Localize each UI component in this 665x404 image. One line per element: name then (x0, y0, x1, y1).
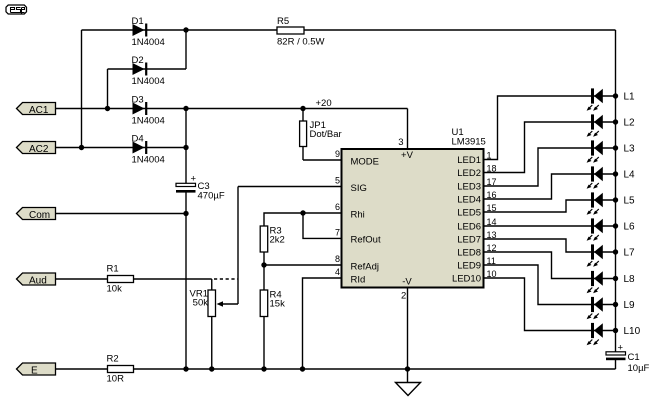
U1 pin 14 LED6 (457, 217, 496, 233)
svg-text:C1: C1 (628, 352, 640, 363)
wire: AC2 / D4 line (56, 147, 187, 149)
node junction at 615.5,330.5 (613, 328, 618, 333)
svg-text:10µF: 10µF (628, 363, 650, 374)
wire: right +V rail (615, 30, 617, 352)
node junction at 303,213 (300, 210, 305, 215)
svg-text:LED3: LED3 (457, 182, 481, 193)
wire: VR1 top lead (211, 279, 213, 290)
wire: AC1 riser to D2 (107, 69, 109, 109)
svg-text:AC1: AC1 (29, 105, 49, 116)
U1 pin 15 LED5 (457, 203, 496, 219)
ESP logo (6, 5, 27, 14)
svg-text:LED7: LED7 (457, 235, 481, 246)
wire: RefOut pin 7 branch (303, 213, 342, 238)
LED L7 (587, 244, 635, 266)
node junction at 615.5,174 (613, 171, 618, 176)
resistor R3 2k2 (260, 226, 285, 253)
svg-text:L9: L9 (624, 300, 636, 311)
potentiometer VR1 50k (190, 289, 223, 317)
wire: L2 anode to rail (594, 121, 616, 123)
U1 pin 17 LED3 (457, 177, 496, 193)
capacitor C3 470uF (176, 174, 225, 202)
wire: +V drop to IC pin 3 (407, 109, 409, 150)
wire: JP1 vertical (302, 109, 304, 161)
wire: wiper line (221, 303, 238, 305)
U1 pin 1 LED1 (457, 150, 491, 166)
LED L2 (587, 114, 635, 136)
node junction at 211.75,369 (209, 366, 214, 371)
svg-text:10R: 10R (107, 374, 125, 385)
svg-text:11: 11 (487, 256, 496, 266)
wire: AC2 riser to D1 (81, 30, 83, 148)
node junction at 186,108.5 (183, 106, 188, 111)
U1 pin 10 LED10 (452, 269, 497, 285)
svg-text:12: 12 (487, 243, 497, 253)
svg-text:10: 10 (487, 269, 497, 279)
svg-text:2: 2 (401, 291, 406, 302)
diode D2 1N4004 (132, 55, 165, 87)
node junction at 407.5,369 (405, 366, 410, 371)
U1 pin 7 RefOut (335, 228, 381, 246)
wire: D2 output riser (185, 30, 187, 69)
wire: pin 17 to L3 (484, 148, 592, 186)
node junction at 615.5,200 (613, 197, 618, 202)
wire: L7 anode to rail (594, 251, 616, 253)
U1 pin 9 MODE (335, 149, 379, 167)
wire: L10 anode to rail (594, 330, 616, 332)
wire: pin 18 to L2 (484, 122, 592, 173)
svg-text:+V: +V (401, 150, 414, 161)
LED L10 (587, 323, 641, 345)
svg-text:RefAdj: RefAdj (351, 261, 380, 272)
svg-text:9: 9 (335, 149, 340, 159)
svg-text:RefOut: RefOut (351, 235, 381, 246)
diode D4 1N4004 (132, 133, 165, 165)
jumper JP1 Dot/Bar (300, 120, 342, 147)
connector AC1 (17, 103, 56, 116)
wire: MODE pin 9 line (303, 159, 342, 161)
node junction at 81.5,147.5 (79, 145, 84, 150)
LED L4 (587, 166, 635, 188)
node junction at 107.5,108.5 (105, 106, 110, 111)
wire: RefAdj pin 8 line (264, 264, 342, 266)
node junction at 303,108.5 (300, 106, 305, 111)
wire: L3 anode to rail (594, 147, 616, 149)
U1 pin 18 LED2 (457, 163, 496, 179)
U1 pin 8 RefAdj (335, 254, 379, 272)
wire: D2 line (108, 68, 187, 70)
svg-text:L1: L1 (624, 92, 636, 103)
svg-text:LED1: LED1 (457, 155, 481, 166)
U1 +V pin 3 label (398, 137, 413, 161)
wire: L6 anode to rail (594, 225, 616, 227)
svg-text:L3: L3 (624, 144, 636, 155)
svg-text:4: 4 (335, 267, 340, 277)
wire: pin 11 to L9 (484, 265, 592, 305)
U1 pin 4 RId (335, 267, 365, 285)
svg-text:LED10: LED10 (452, 274, 481, 285)
svg-text:13: 13 (487, 230, 497, 240)
wire: pin 13 to L7 (484, 239, 592, 252)
wire: SIG vertical to wiper (237, 187, 239, 305)
svg-text:15k: 15k (270, 299, 286, 310)
wire: L8 anode to rail (594, 278, 616, 280)
svg-text:R5: R5 (277, 16, 289, 27)
resistor R2 10R (107, 354, 134, 385)
node junction at 186,147.5 (183, 145, 188, 150)
svg-text:D4: D4 (132, 133, 144, 144)
wire: Aud / R1 line (56, 278, 212, 280)
resistor R1 10k (107, 264, 134, 295)
svg-text:E: E (31, 365, 38, 376)
svg-text:L8: L8 (624, 274, 636, 285)
connector Aud (17, 273, 56, 286)
wire: E / ground rail (56, 368, 616, 370)
wire: Com line (56, 213, 187, 215)
U1 pin 16 LED4 (457, 190, 496, 206)
node junction at 186,369 (183, 366, 188, 371)
LED L6 (587, 218, 635, 240)
svg-text:L6: L6 (624, 222, 636, 233)
svg-text:10k: 10k (107, 284, 123, 295)
node junction at 615.5,122 (613, 119, 618, 124)
LED L5 (587, 192, 635, 214)
svg-text:1: 1 (487, 150, 492, 160)
diode D1 1N4004 (132, 16, 165, 48)
LED L9 (587, 297, 635, 319)
wire: SIG pin 5 line (238, 186, 342, 188)
svg-text:1N4004: 1N4004 (132, 37, 165, 48)
svg-text:R1: R1 (107, 264, 119, 275)
wire: C1 bottom lead (615, 360, 617, 369)
svg-text:+: + (618, 343, 624, 354)
node junction at 615.5,96 (613, 93, 618, 98)
wire: R4 bottom lead (263, 317, 265, 370)
resistor R4 15k (260, 290, 285, 317)
svg-text:Dot/Bar: Dot/Bar (310, 129, 342, 140)
wire: AC1 / D3 / +20 line (56, 108, 408, 110)
svg-text:5: 5 (335, 176, 340, 186)
svg-text:LED2: LED2 (457, 168, 481, 179)
svg-text:3: 3 (398, 137, 403, 148)
svg-text:50k: 50k (193, 298, 209, 309)
wire: L1 anode to rail (594, 95, 616, 97)
svg-text:LED9: LED9 (457, 261, 481, 272)
wire: L9 anode to rail (594, 304, 616, 306)
diode D3 1N4004 (132, 94, 165, 126)
connector AC2 (17, 142, 56, 155)
svg-text:Rhi: Rhi (351, 209, 365, 220)
U1 pin 13 LED7 (457, 230, 496, 246)
wire: pin 15 to L5 (484, 200, 592, 212)
wire: VR1 bottom lead (211, 317, 213, 370)
svg-text:D3: D3 (132, 94, 144, 105)
svg-text:82R / 0.5W: 82R / 0.5W (277, 37, 325, 48)
svg-text:SIG: SIG (351, 183, 367, 194)
wire: C3 bottom vertical to ground rail (185, 193, 187, 370)
svg-text:16: 16 (487, 190, 497, 200)
svg-text:L7: L7 (624, 248, 636, 259)
svg-text:8: 8 (335, 254, 340, 264)
U1 -V pin 2 label (401, 277, 412, 302)
svg-text:LED8: LED8 (457, 248, 481, 259)
capacitor C1 10uF (606, 343, 650, 375)
svg-text:470µF: 470µF (198, 191, 225, 202)
LED L1 (587, 88, 635, 110)
wire: C3 top vertical (185, 109, 187, 184)
svg-text:15: 15 (487, 203, 497, 213)
svg-text:LED6: LED6 (457, 222, 481, 233)
node junction at 186,213.5 (183, 211, 188, 216)
node junction at 264,265 (261, 262, 266, 267)
LED L8 (587, 271, 635, 293)
connector Com (17, 208, 56, 221)
svg-text:LED5: LED5 (457, 208, 481, 219)
wire: pin 12 to L8 (484, 252, 592, 279)
wire: pin 1 to L1 (484, 96, 592, 160)
svg-text:+20: +20 (316, 98, 332, 109)
wire: D1 top line to right rail (82, 29, 616, 31)
svg-text:Aud: Aud (29, 275, 47, 286)
U1 pin 12 LED8 (457, 243, 496, 259)
svg-text:1N4004: 1N4004 (132, 76, 165, 87)
svg-text:L4: L4 (624, 170, 636, 181)
node junction at 615.5,278.5 (613, 276, 618, 281)
svg-text:R2: R2 (107, 354, 119, 365)
svg-text:AC2: AC2 (29, 144, 49, 155)
wire: pin 10 to L10 (484, 278, 592, 331)
svg-text:D1: D1 (132, 16, 144, 27)
U1 pin 11 LED9 (457, 256, 496, 272)
U1 pin 5 SIG (335, 176, 367, 194)
node junction at 615.5,226 (613, 223, 618, 228)
svg-text:14: 14 (487, 217, 497, 227)
svg-text:MODE: MODE (351, 156, 380, 167)
wire: R3 top to Rhi pin 6 (264, 213, 342, 226)
svg-text:D2: D2 (132, 55, 144, 66)
connector E (17, 363, 56, 376)
svg-text:+: + (191, 174, 197, 185)
wire: R3-R4 junction vertical (263, 252, 265, 290)
wire: L4 anode to rail (594, 173, 616, 175)
resistor R5 82R/0.5W (277, 16, 325, 48)
U1 pin 6 Rhi (335, 202, 365, 220)
node junction at 302.5,369 (300, 366, 305, 371)
svg-text:6: 6 (335, 202, 340, 212)
svg-text:-V: -V (402, 277, 412, 288)
wire: dashed wiper link (214, 278, 238, 280)
svg-text:7: 7 (335, 228, 340, 238)
wire: pin 14 to L6 (484, 225, 592, 227)
svg-text:Com: Com (29, 210, 50, 221)
svg-text:RId: RId (351, 274, 366, 285)
svg-text:LED4: LED4 (457, 195, 481, 206)
svg-text:17: 17 (487, 177, 497, 187)
node junction at 264,369 (261, 366, 266, 371)
op-amp U1 LM3915 body (342, 149, 484, 288)
node junction at 615.5,148 (613, 145, 618, 150)
svg-text:2k2: 2k2 (270, 235, 285, 246)
node junction at 615.5,304.5 (613, 302, 618, 307)
svg-text:1N4004: 1N4004 (132, 154, 165, 165)
svg-text:L10: L10 (624, 326, 641, 337)
wire: RId pin 4 to ground rail (303, 278, 342, 369)
wire: -V stub and ground lead (407, 288, 409, 383)
node junction at 186,30 (183, 27, 188, 32)
svg-text:18: 18 (487, 163, 497, 173)
U1 designator labels (452, 127, 486, 148)
ground symbol (396, 383, 421, 396)
LED L3 (587, 140, 635, 162)
wire: pin 16 to L4 (484, 174, 592, 199)
svg-text:1N4004: 1N4004 (132, 115, 165, 126)
wire: L5 anode to rail (594, 199, 616, 201)
svg-text:L5: L5 (624, 196, 636, 207)
svg-text:L2: L2 (624, 118, 636, 129)
node junction at 615.5,252 (613, 249, 618, 254)
svg-text:LM3915: LM3915 (452, 137, 486, 148)
